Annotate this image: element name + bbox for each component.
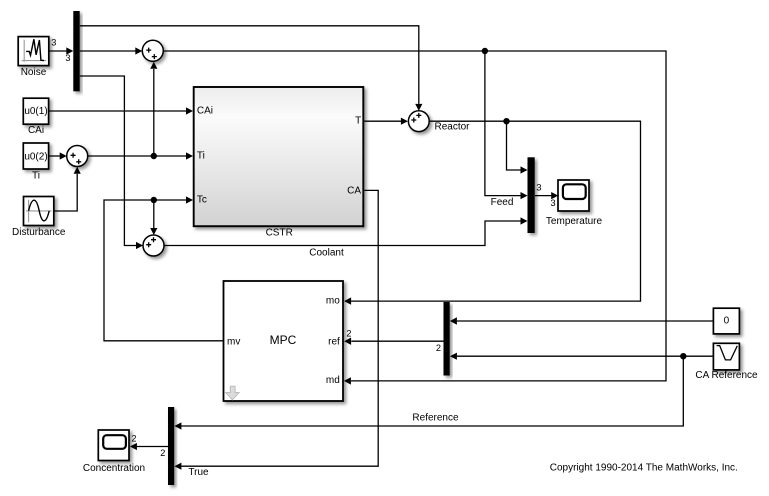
wire CA Reference to Ref mux input2: [450, 353, 714, 360]
wire Reactor sum to MPC mo (long): [344, 121, 640, 305]
block Concentration scope: [98, 430, 129, 461]
svg-text:CA: CA: [347, 185, 361, 196]
svg-text:Ti: Ti: [197, 150, 205, 161]
junction on CA Reference wire: [680, 353, 686, 359]
svg-text:T: T: [355, 116, 361, 127]
svg-text:Reference: Reference: [412, 412, 459, 423]
svg-text:True: True: [188, 467, 209, 478]
wire branch junction to Feed mux input1: [507, 121, 528, 173]
svg-text:Noise: Noise: [21, 67, 47, 78]
svg-text:ref: ref: [328, 336, 340, 347]
wire u0(2) to Ti sum: [49, 152, 67, 159]
wire Ti sum to CSTR Ti: [88, 152, 193, 159]
wire Reference branch to True mux input1: [174, 356, 683, 429]
svg-text:Tc: Tc: [197, 194, 207, 205]
svg-text:Copyright 1990-2014 The MathWo: Copyright 1990-2014 The MathWorks, Inc.: [550, 463, 738, 474]
wire Mux1 out2 to Sum1: [80, 47, 143, 54]
junction on Sum1 output: [482, 48, 488, 54]
svg-text:Disturbance: Disturbance: [12, 227, 66, 238]
wire Mux1 out1 to Reactor sum top: [80, 26, 423, 111]
svg-text:u0(1): u0(1): [24, 106, 47, 117]
wire branch down to Coolant sum top: [150, 200, 157, 235]
mux Ref mux: [444, 302, 450, 376]
wire Constant 0 to Ref mux input1: [450, 317, 714, 324]
junction on Tc wire: [151, 197, 157, 203]
block Disturbance: [24, 197, 54, 226]
svg-text:2: 2: [131, 433, 136, 443]
svg-text:Coolant: Coolant: [309, 248, 344, 259]
wire Feed mux to Temperature scope: [535, 192, 558, 199]
svg-text:3: 3: [51, 37, 56, 47]
wire True mux to Concentration scope: [130, 443, 168, 450]
mux Feed: [528, 157, 535, 233]
wire Sum1 output to MPC md (long): [163, 51, 666, 385]
svg-text:md: md: [326, 375, 340, 386]
junction on Ti wire: [151, 153, 157, 159]
svg-text:3: 3: [536, 183, 541, 193]
block CAi constant u0(1): [23, 98, 48, 124]
svg-text:Temperature: Temperature: [546, 216, 603, 227]
svg-text:mo: mo: [326, 296, 340, 307]
wire Mux1 out3 to Coolant sum: [80, 76, 143, 249]
block Ti constant u0(2): [23, 143, 48, 169]
MPC gray download arrow: [226, 386, 239, 400]
block CSTR: [194, 87, 364, 226]
mux Mux1 (demux bar top-left): [73, 11, 79, 91]
svg-text:3: 3: [65, 53, 70, 63]
wire CSTR T to Reactor sum: [364, 118, 408, 125]
wire CSTR CA to True mux input2: [174, 190, 378, 469]
svg-text:0: 0: [724, 316, 730, 327]
junction on Reactor output: [503, 118, 509, 124]
sum Reactor sum: [408, 111, 429, 132]
mux True mux: [168, 407, 174, 485]
svg-text:2: 2: [346, 328, 351, 338]
svg-text:CAi: CAi: [28, 125, 44, 136]
svg-text:MPC: MPC: [270, 333, 297, 347]
block MPC: [224, 281, 344, 401]
wire Noise to Mux1: [49, 47, 73, 54]
block CA Reference: [713, 343, 739, 370]
block Noise: [18, 37, 49, 66]
svg-text:CA Reference: CA Reference: [695, 370, 758, 381]
svg-text:CSTR: CSTR: [266, 228, 293, 239]
svg-text:2: 2: [160, 448, 165, 458]
svg-text:Feed: Feed: [491, 197, 514, 208]
wire Ref mux to MPC ref: [344, 338, 443, 345]
svg-text:mv: mv: [227, 336, 240, 347]
svg-text:Concentration: Concentration: [83, 463, 145, 474]
sum Sum1 (noise + Ti): [142, 40, 163, 61]
svg-text:3: 3: [550, 198, 555, 208]
wire MPC mv to CSTR Tc: [104, 196, 224, 340]
svg-text:u0(2): u0(2): [24, 152, 47, 163]
block Temperature scope: [558, 180, 589, 211]
block Constant 0: [713, 308, 739, 334]
wire u0(1) to CSTR CAi: [49, 107, 193, 114]
wire Disturbance to Ti sum bottom: [54, 167, 81, 211]
wire branch junction to Feed mux input2: [485, 51, 528, 199]
svg-text:Ti: Ti: [32, 171, 40, 182]
svg-text:Reactor: Reactor: [435, 121, 471, 132]
wire Ti junction up to Sum1 bottom: [150, 62, 157, 156]
sum Ti sum: [67, 146, 88, 167]
svg-text:CAi: CAi: [197, 106, 213, 117]
sum Coolant sum: [143, 235, 164, 256]
wire Coolant sum to Feed mux input3: [164, 217, 528, 245]
svg-text:2: 2: [436, 343, 441, 353]
